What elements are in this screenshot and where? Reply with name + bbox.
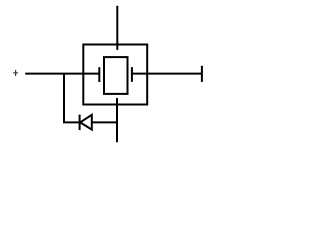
node + (positive terminal label)	[13, 70, 18, 76]
wire left branch	[64, 74, 80, 123]
wire left lead	[25, 73, 99, 75]
wire diode to bottom lead	[92, 121, 117, 123]
diode D1 triangle	[80, 115, 92, 130]
crystal Y1 right plate	[131, 67, 133, 82]
diode D1 cathode bar	[79, 115, 81, 131]
wire right lead	[132, 73, 202, 75]
crystal Y1 left plate	[98, 67, 100, 82]
crystal Y1 body	[104, 57, 128, 94]
wire top case lead	[116, 6, 118, 50]
wire bottom case lead	[116, 98, 118, 142]
right terminal bar	[201, 66, 203, 82]
case shield box	[83, 45, 147, 105]
